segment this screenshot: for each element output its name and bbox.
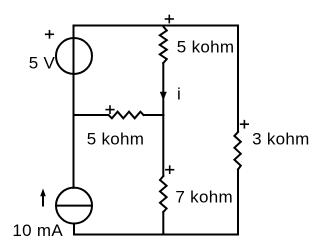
wire middle horizontal right	[144, 114, 164, 116]
svg-text:3 kohm: 3 kohm	[252, 129, 310, 148]
plus node mid	[105, 105, 114, 114]
wire middle branch mid	[162, 115, 164, 176]
plus node bottom	[165, 165, 174, 174]
wire bottom	[74, 234, 238, 236]
wire right branch upper	[237, 26, 239, 132]
plus node right	[240, 120, 249, 129]
arrow I1 direction head	[40, 189, 46, 197]
wire middle horizontal left	[74, 114, 109, 116]
arrow I1 direction shaft	[42, 196, 44, 206]
wire right branch lower	[237, 170, 239, 235]
wire middle branch lower	[162, 212, 164, 235]
plus voltage source	[45, 30, 54, 39]
resistor R-right 3 kohm	[234, 132, 240, 170]
plus node top	[165, 15, 174, 24]
resistor R-bot 7 kohm	[160, 176, 167, 212]
arrow current i head	[160, 92, 167, 101]
wire left branch	[73, 26, 75, 188]
voltage source V1 circle	[56, 38, 92, 74]
svg-text:i: i	[177, 85, 181, 104]
current source I1 bar	[56, 205, 92, 207]
svg-text:5 kohm: 5 kohm	[177, 37, 235, 56]
svg-text:5 kohm: 5 kohm	[87, 129, 145, 148]
current source I1 circle	[56, 188, 92, 224]
svg-text:5 V: 5 V	[29, 54, 56, 73]
resistor R-mid 5 kohm	[109, 112, 144, 119]
svg-text:10 mA: 10 mA	[12, 221, 63, 240]
wire top	[74, 25, 239, 27]
svg-text:7 kohm: 7 kohm	[175, 188, 233, 207]
wire middle branch upper	[162, 63, 164, 115]
wire current source bottom	[73, 224, 75, 235]
resistor R-top 5 kohm	[160, 26, 167, 64]
